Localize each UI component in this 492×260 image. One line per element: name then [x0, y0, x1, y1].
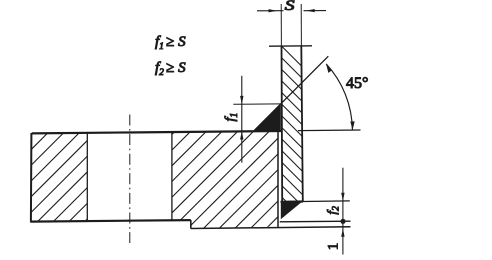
- angle arc lower arrowhead: [350, 121, 354, 129]
- flange bottom face edge: [30, 220, 191, 222]
- label f1: [223, 113, 240, 122]
- svg-text:f2: f2: [324, 206, 342, 215]
- dimension f1 upper arrowhead: [240, 96, 243, 104]
- bolt hole centerline: [129, 115, 131, 244]
- svg-text:45°: 45°: [346, 75, 368, 92]
- dimension S line right segment: [304, 10, 327, 12]
- angle arc upper arrowhead: [326, 64, 332, 73]
- raised-face step edge: [190, 220, 192, 229]
- fillet weld 2 (inner weld at pipe end, leg f2): [281, 202, 302, 220]
- bolt hole left edge: [86, 133, 88, 221]
- svg-text:f2≥S: f2≥S: [155, 60, 186, 78]
- dimension f1 extension line (weld toe): [233, 103, 281, 105]
- raised-face bottom edge with extension to the right: [191, 227, 351, 229]
- flange top face edge: [32, 131, 281, 133]
- flange section hatching, left block: [0, 125, 181, 230]
- dimension f1 lower arrowhead: [240, 131, 243, 139]
- pipe end extension line: [303, 200, 350, 203]
- dimension S left arrowhead: [269, 9, 278, 12]
- svg-text:f1: f1: [223, 113, 240, 122]
- angle dimension arc: [326, 64, 352, 130]
- dimension f2 and 1 shared dimension line: [342, 168, 344, 255]
- fillet weld 1 (outer weld, leg f1): [253, 104, 281, 131]
- weld toe extension line: [280, 220, 351, 223]
- pipe wall section hatching: [240, 5, 340, 256]
- dimension S left extension line: [280, 4, 282, 46]
- 45 degree weld face construction line: [254, 56, 329, 131]
- dimension f2 upper arrowhead: [341, 193, 344, 201]
- label 1: [325, 243, 341, 251]
- flange section hatching, right block: [76, 125, 369, 230]
- dimension S right extension line: [300, 4, 302, 46]
- svg-text:f1≥S: f1≥S: [155, 34, 186, 52]
- dimension S line left segment: [257, 10, 284, 12]
- flange outer (left) edge: [30, 133, 33, 222]
- horizontal reference line for angle: [298, 129, 361, 132]
- label f2: [324, 206, 342, 215]
- label S: [285, 0, 295, 13]
- pipe inner (right) wall edge: [301, 46, 303, 202]
- flange bore edge: [277, 131, 279, 227]
- dimension f1 line: [241, 76, 243, 163]
- svg-text:S: S: [285, 0, 295, 13]
- bolt hole right edge: [171, 132, 173, 220]
- pipe bottom end edge: [281, 200, 304, 203]
- pipe top end edge: [269, 45, 312, 47]
- dimension S right arrowhead: [306, 9, 315, 12]
- svg-text:1: 1: [325, 243, 341, 251]
- pipe outer (left) wall edge: [281, 46, 284, 202]
- dimension 1 lower arrowhead: [341, 228, 344, 236]
- shared dimension dot: [340, 219, 345, 224]
